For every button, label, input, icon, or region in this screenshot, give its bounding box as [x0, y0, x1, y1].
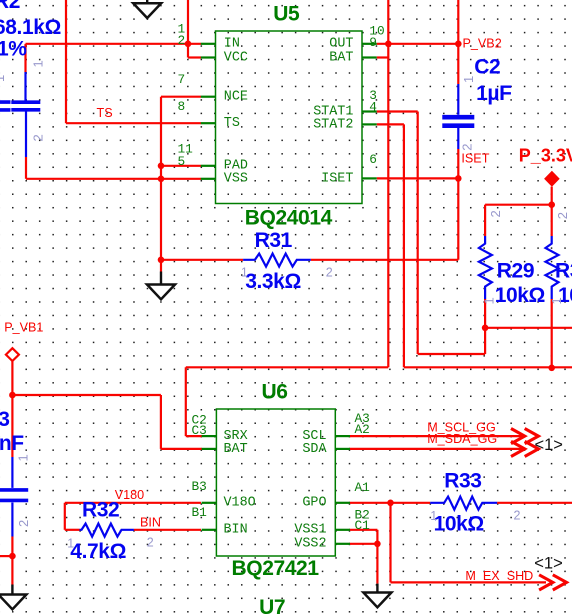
svg-text:VSS1: VSS1 — [294, 523, 326, 538]
svg-text:BQ24014: BQ24014 — [245, 207, 333, 230]
svg-text:1: 1 — [549, 297, 564, 304]
svg-text:10kΩ: 10kΩ — [495, 284, 545, 307]
svg-text:BAT: BAT — [224, 442, 248, 457]
svg-text:4.7kΩ: 4.7kΩ — [70, 540, 126, 563]
svg-text:C2: C2 — [474, 56, 500, 79]
svg-text:7: 7 — [178, 72, 186, 87]
svg-text:ISET: ISET — [321, 171, 353, 186]
svg-text:1: 1 — [430, 509, 437, 523]
svg-text:C1: C1 — [355, 518, 371, 533]
svg-text:<1>: <1> — [534, 555, 562, 573]
svg-text:100nF: 100nF — [0, 432, 24, 455]
svg-text:2: 2 — [514, 509, 521, 523]
svg-text:M_EX_SHD: M_EX_SHD — [465, 569, 533, 583]
svg-text:R32: R32 — [82, 499, 119, 522]
svg-text:NCE: NCE — [224, 90, 248, 105]
svg-text:A1: A1 — [355, 480, 371, 495]
svg-text:2: 2 — [460, 144, 475, 151]
svg-text:1: 1 — [67, 537, 74, 551]
svg-text:BIN: BIN — [140, 515, 161, 529]
svg-text:P_VB1: P_VB1 — [4, 321, 43, 335]
svg-text:BQ27421: BQ27421 — [232, 557, 320, 580]
svg-text:STAT2: STAT2 — [313, 117, 353, 132]
svg-text:BAT: BAT — [329, 50, 353, 65]
svg-text:2: 2 — [16, 520, 31, 527]
svg-text:2: 2 — [31, 134, 46, 141]
svg-text:1: 1 — [461, 76, 476, 83]
svg-text:BIN: BIN — [224, 523, 248, 538]
svg-text:R31: R31 — [255, 229, 293, 252]
svg-text:V18O: V18O — [224, 496, 256, 511]
svg-text:GPO: GPO — [302, 496, 326, 511]
svg-text:2: 2 — [488, 210, 503, 217]
svg-text:R30: R30 — [555, 259, 572, 282]
svg-text:4: 4 — [369, 99, 377, 114]
svg-text:6: 6 — [369, 152, 377, 167]
svg-text:1: 1 — [31, 60, 46, 67]
svg-text:B3: B3 — [192, 479, 207, 494]
svg-text:1µF: 1µF — [476, 82, 512, 105]
svg-text:C3: C3 — [192, 423, 207, 438]
svg-text:9: 9 — [369, 35, 377, 50]
svg-text:2: 2 — [147, 536, 154, 550]
svg-text:C3: C3 — [0, 408, 10, 431]
svg-text:M_SDA_GG: M_SDA_GG — [427, 432, 497, 446]
svg-text:R2: R2 — [0, 0, 20, 13]
svg-text:ISET: ISET — [461, 151, 489, 165]
svg-text:TS: TS — [97, 106, 113, 120]
svg-text:2: 2 — [178, 33, 186, 48]
svg-text:3.3kΩ: 3.3kΩ — [245, 270, 301, 293]
svg-text:R29: R29 — [497, 259, 534, 282]
svg-text:U7: U7 — [259, 596, 285, 614]
svg-text:68.1kΩ: 68.1kΩ — [0, 16, 61, 39]
svg-text:<1>: <1> — [535, 436, 563, 454]
svg-text:V180: V180 — [115, 488, 144, 502]
svg-text:R33: R33 — [444, 470, 481, 493]
svg-text:VCC: VCC — [224, 50, 248, 65]
svg-text:2: 2 — [326, 265, 333, 279]
svg-text:A2: A2 — [355, 422, 370, 437]
svg-text:P_VB2: P_VB2 — [463, 37, 502, 51]
svg-text:VSS: VSS — [224, 172, 248, 187]
svg-text:B1: B1 — [192, 505, 208, 520]
svg-text:SDA: SDA — [302, 442, 327, 457]
svg-text:10kΩ: 10kΩ — [434, 512, 484, 535]
svg-text:U5: U5 — [273, 2, 300, 25]
svg-text:8: 8 — [178, 99, 186, 114]
svg-text:U6: U6 — [262, 381, 288, 404]
svg-text:5: 5 — [178, 154, 186, 169]
svg-text:1%: 1% — [0, 38, 27, 61]
svg-text:P_3.3V: P_3.3V — [519, 146, 572, 166]
svg-text:TS: TS — [224, 116, 240, 131]
svg-text:1: 1 — [0, 75, 7, 82]
svg-text:1: 1 — [241, 265, 248, 279]
svg-text:2: 2 — [555, 212, 570, 219]
svg-text:1: 1 — [16, 454, 31, 461]
svg-text:VSS2: VSS2 — [294, 537, 326, 552]
svg-text:1: 1 — [482, 297, 497, 304]
